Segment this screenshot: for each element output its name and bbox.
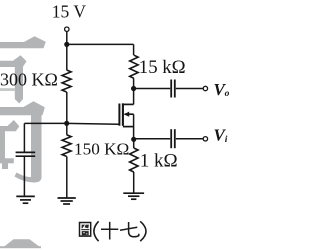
ground left bar1 (16, 195, 35, 197)
wire 1k to ground (133, 172, 135, 193)
wire rail 300k top (66, 44, 68, 70)
resistor 1k zigzag (130, 148, 138, 172)
caption 七 (drawn glyph) (120, 222, 139, 237)
wire source vertical (133, 114, 135, 139)
junction dot source node (131, 137, 136, 142)
watermark stroke (vertical with hook) (15, 112, 42, 183)
wire drain vertical (133, 89, 135, 105)
wire source node to 1k (133, 139, 135, 148)
svg-text:15 kΩ: 15 kΩ (139, 57, 186, 78)
transistor M1 drain lead (123, 103, 134, 105)
terminal Vo (open circle) (203, 86, 207, 90)
svg-text:300 KΩ: 300 KΩ (0, 70, 58, 90)
watermark stroke (bottom mountain) (3, 239, 41, 247)
capacitor Ci plate 1 (170, 129, 172, 148)
wire Cg to ground (23, 157, 25, 196)
svg-text:o: o (225, 89, 230, 99)
wire drain node to capacitor Co (134, 88, 171, 90)
ground mid bar3 (63, 203, 70, 205)
transistor M1 arrow head (124, 112, 129, 117)
caption 十 (drawn glyph) (101, 222, 118, 240)
watermark stroke (bottom line) (0, 246, 41, 248)
capacitor Cg plate 1 (16, 151, 36, 153)
ground right bar2 (128, 195, 139, 197)
wire Ci to Vi terminal (176, 138, 203, 140)
ground mid bar2 (61, 200, 73, 202)
caption 圖 (drawn glyph) (80, 223, 91, 237)
junction dot drain node (131, 86, 136, 91)
wire 300k to gate node (66, 92, 68, 123)
capacitor Ci plate 2 (174, 129, 176, 148)
wire down to 15k (133, 44, 135, 55)
watermark stroke (second bar with serif) (0, 55, 27, 67)
capacitor Co plate 1 (170, 80, 172, 98)
capacitor Co plate 2 (174, 80, 176, 98)
ground left bar3 (23, 202, 29, 204)
wire 150k to ground (66, 156, 68, 198)
ground right bar3 (131, 198, 136, 200)
transistor M1 body lead (125, 113, 134, 115)
terminal Vi (open circle) (203, 137, 207, 141)
wire top horizontal (67, 43, 134, 45)
transistor M1 channel bar (122, 103, 124, 126)
junction dot VDD node (64, 42, 69, 47)
ground left bar2 (20, 199, 31, 201)
watermark stroke (small serif bar) (0, 120, 19, 131)
svg-text:150 KΩ: 150 KΩ (74, 139, 129, 158)
wire gate node to 150k (66, 123, 68, 134)
wire 15k to drain node (133, 78, 135, 88)
watermark stroke (third bar with serif) (0, 101, 45, 115)
wire VDD to junction (66, 32, 68, 45)
caption close paren (140, 221, 146, 241)
svg-text:1 kΩ: 1 kΩ (140, 151, 178, 172)
resistor 150k zigzag (62, 135, 71, 157)
svg-text:15 V: 15 V (52, 2, 87, 22)
watermark stroke (small tail) (2, 163, 8, 169)
terminal VDD (open circle) (65, 27, 69, 31)
wire left cap branch down (23, 123, 25, 151)
watermark stroke (thin band) (0, 88, 15, 91)
wire gate horizontal (24, 122, 118, 125)
resistor 300k zigzag (62, 70, 71, 92)
caption open paren (94, 221, 99, 241)
watermark stroke (top bar with serif) (0, 36, 46, 48)
junction dot gate node (64, 121, 69, 126)
watermark stroke (left edge vertical) (0, 126, 5, 163)
wire Co to Vo terminal (176, 88, 203, 90)
watermark stroke (small bottom bar) (0, 158, 14, 163)
svg-text:i: i (225, 135, 228, 145)
resistor 15k zigzag (130, 55, 138, 78)
transistor M1 source lead (123, 126, 134, 128)
capacitor Cg plate 2 (16, 155, 36, 157)
ground mid bar1 (58, 197, 76, 199)
wire source node to capacitor Ci (134, 138, 171, 140)
ground right bar1 (123, 192, 144, 194)
transistor M1 gate bar (118, 104, 120, 126)
watermark stroke (vertical bar) (15, 61, 23, 104)
